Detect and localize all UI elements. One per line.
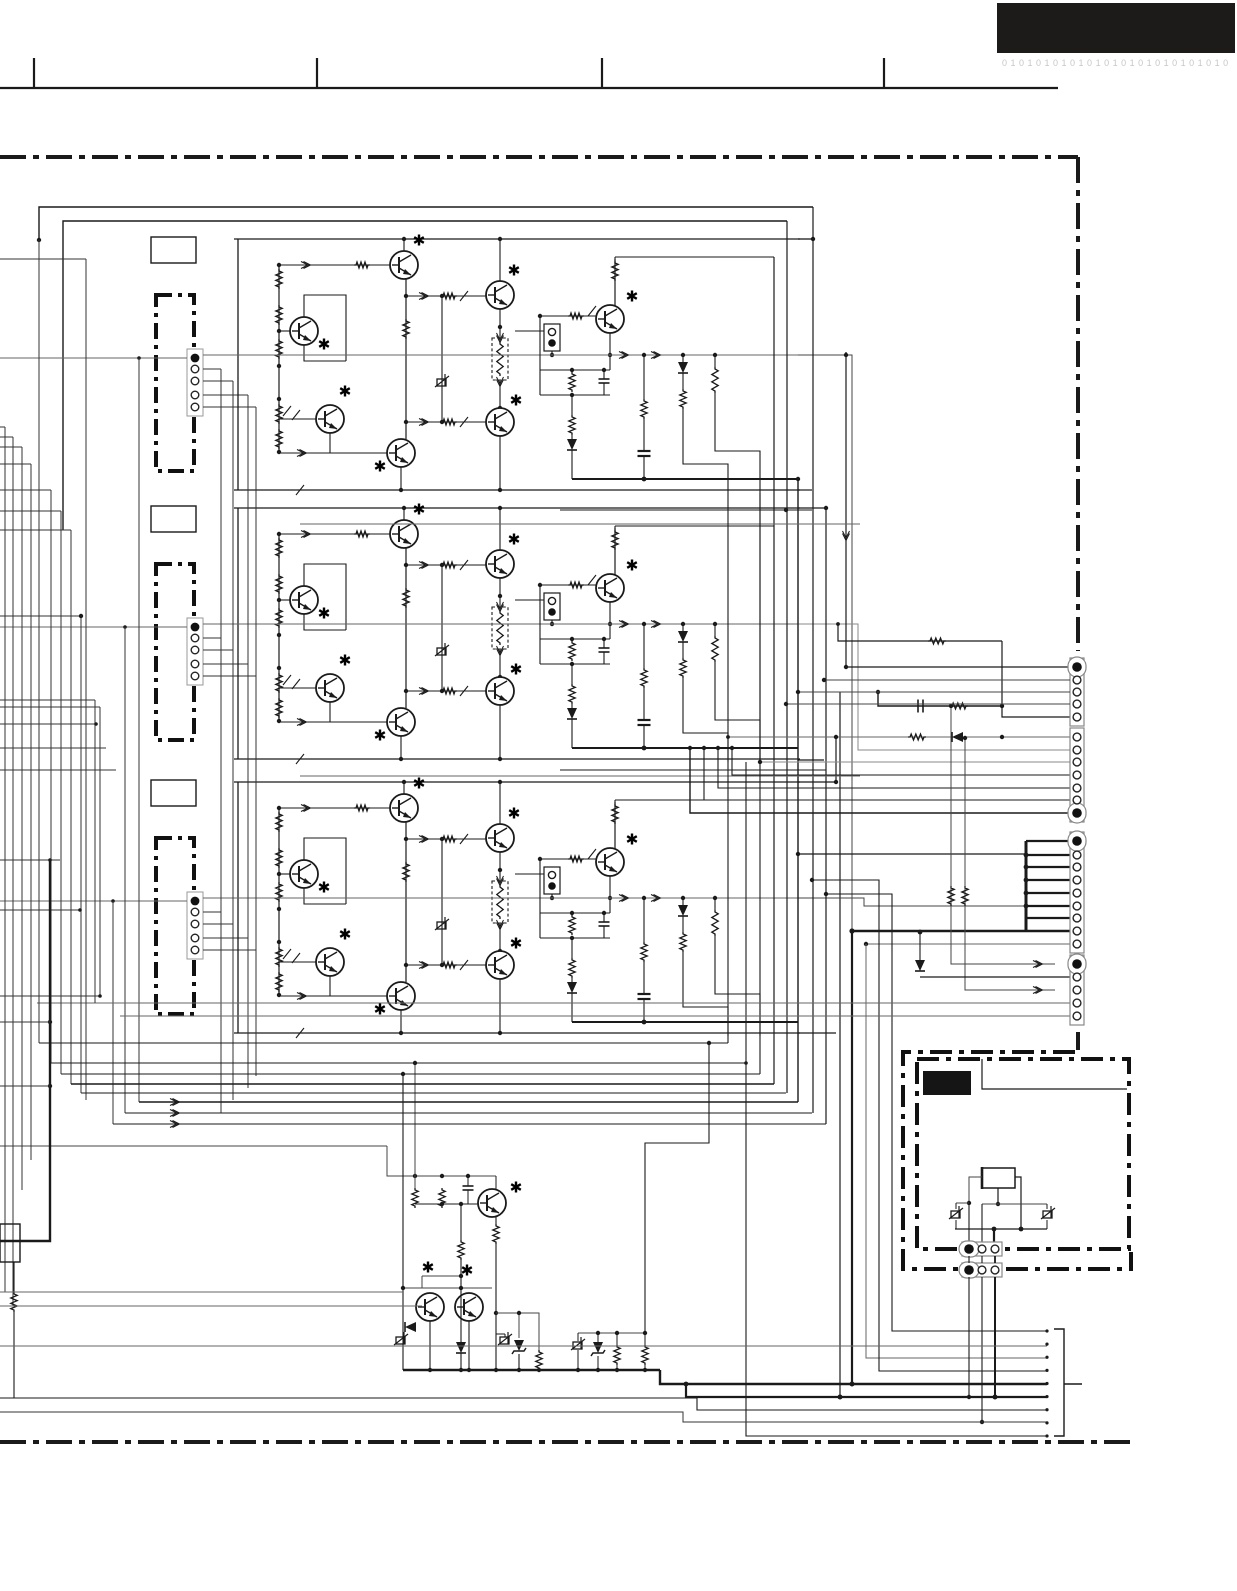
wire drop x233 (232, 381, 234, 1100)
wire zener (496, 1313, 519, 1338)
resistor R42 (908, 734, 926, 740)
wire (519, 1313, 539, 1350)
wires to CN-E (968, 1203, 970, 1245)
resistor R60 (412, 1188, 418, 1208)
connector CN-D (1070, 955, 1084, 1025)
resistor R64 (536, 1350, 542, 1370)
connector CN-A (1070, 658, 1084, 726)
bus wire 3 (797, 479, 799, 1102)
node (849, 928, 854, 933)
wire z-step 2 (826, 894, 1047, 1331)
left bus wire x=81 (80, 616, 82, 1093)
wire drop x248 (247, 395, 249, 1088)
capacitor C61 (gnd) (396, 1337, 405, 1344)
resistor R43 (948, 886, 954, 906)
wire bottom long 1 (0, 1398, 1047, 1410)
ruler tick x=602 (601, 58, 603, 88)
wire z-step 1 (812, 880, 1047, 1371)
bus wire 7 (846, 352, 1070, 667)
resistor R62 (458, 1240, 464, 1260)
sub-board outer outline (dash-dot) (903, 1052, 1131, 1269)
left bus wire x=86 (85, 259, 87, 1100)
wire long 1346 (0, 1345, 1047, 1347)
wire relay mid (997, 1188, 999, 1204)
capacitor C50 (gnd) (951, 1211, 960, 1218)
resistor R44 (962, 886, 968, 906)
wire drop x403 (402, 1074, 404, 1288)
sub-board inner outline (dash-dot) (917, 1059, 1129, 1249)
board outline top (dash-dot) (0, 155, 1078, 159)
thick return wire (0, 860, 50, 1241)
wire long into CN-D (37, 1002, 1070, 1004)
harness wire y=1102 (139, 1101, 798, 1103)
harness arrows (170, 1099, 180, 1106)
left bus wire x=22 (21, 447, 23, 1190)
wire end y=1370 (1045, 1369, 1048, 1372)
left horizontals (0, 258, 86, 260)
left bus wire x=51 (50, 490, 52, 1063)
wire end y=1396 (1045, 1395, 1048, 1398)
relay outline channel 3 (dash-dot) (156, 838, 194, 1014)
wires CN3 pins (0, 900, 187, 902)
assembly outline wire inner (63, 221, 787, 530)
wire end y=1383 (1045, 1382, 1048, 1385)
wire bottom rail (955, 1228, 1047, 1230)
wire rail ch2 to bus (798, 624, 1070, 750)
wire into CN-A pins (824, 679, 1070, 681)
wire relay left (969, 1177, 982, 1203)
wire gap1 b (300, 523, 860, 525)
top ruler line (0, 87, 1058, 89)
zener ZD61 (593, 1342, 603, 1353)
wire drop x709 (645, 1043, 709, 1333)
wire pin9 (866, 943, 1070, 945)
wire end y=1409 (1045, 1408, 1048, 1411)
protection ground bus (403, 1369, 660, 1371)
wire relay right (1015, 1177, 1021, 1229)
left bus wire x=61 (60, 511, 62, 1074)
wire (429, 1321, 431, 1370)
wire rail mid (982, 1203, 1047, 1205)
transistor Q60 (478, 1189, 506, 1217)
connector CN-F (3 pin) (962, 1263, 1002, 1277)
connector CN2 (5 pin) (187, 618, 203, 685)
comb stub y=855 (1026, 854, 1070, 856)
left bus wire x=100 (99, 707, 101, 996)
comb stub y=906 (1026, 905, 1070, 907)
bus wire 1 (773, 257, 775, 1084)
title block (black) (997, 3, 1235, 53)
harness bracket (1054, 1329, 1064, 1436)
resistor R61 (439, 1188, 445, 1208)
left bus wire x=71 (70, 530, 72, 1084)
harness wire y=1063 (51, 1062, 746, 1064)
capacitor C60 (463, 1185, 474, 1187)
resistor R63 (493, 1224, 499, 1244)
connector CN-B (1070, 728, 1084, 822)
bus wire 2 (786, 221, 788, 1093)
relay outline channel 2 (dash-dot) (156, 564, 194, 740)
harness wire y=1093 (81, 1092, 786, 1094)
diode D61 (456, 1342, 466, 1353)
bus drop x840 (839, 692, 841, 1397)
wire column x760 (759, 493, 761, 1074)
wire rail drop ch3 (112, 901, 114, 1124)
wire base rail (415, 1203, 478, 1205)
ruler tick x=317 (316, 58, 318, 88)
wire end y=1357 (1045, 1356, 1048, 1359)
bus step 2 (686, 1384, 1047, 1397)
bus wire 4 (812, 207, 814, 1113)
wires CN-E to CN-F (968, 1256, 970, 1263)
left bottom box (0, 1224, 20, 1262)
harness wire y=1043 (39, 1042, 728, 1044)
wire (460, 1204, 462, 1240)
connector CN-E (3 pin) (962, 1242, 1002, 1256)
wire drop x415 (414, 1063, 416, 1188)
left bus wire x=5 (4, 427, 6, 1292)
wires CN1 pins (0, 357, 187, 359)
wire gap1 a (560, 509, 812, 511)
resistor R40 (838, 624, 1002, 641)
resistor R70 (11, 1292, 17, 1312)
connector CN3 (5 pin) (187, 892, 203, 959)
wires CN2 pins (0, 626, 187, 628)
wire rail854 (798, 853, 1026, 855)
left bus wire x=13 (12, 437, 14, 1306)
wire left grey 1 (0, 1291, 403, 1293)
left bus wire x=95 (94, 700, 96, 1003)
channel bottom borders extend (798, 489, 812, 491)
channel top borders extend (798, 238, 813, 240)
wire feed left (0, 1145, 387, 1147)
label box channel 1 (151, 237, 196, 263)
wire top rail (387, 1146, 496, 1176)
amplifier channel 2 (203, 504, 800, 765)
comb stub y=867 (1026, 866, 1070, 868)
resistor R41 (950, 703, 968, 709)
capacitor C63 (gnd) (573, 1342, 582, 1349)
relay K1 box (982, 1168, 1015, 1188)
diode D60 (405, 1322, 416, 1332)
wires into CN-B (759, 493, 761, 762)
wire cap row (878, 692, 1002, 706)
transistor Q61 (416, 1293, 444, 1321)
resistor R66 (642, 1345, 648, 1365)
wire Q60 emitter (495, 1217, 497, 1224)
assembly outline wire outer (39, 207, 813, 240)
wire (951, 706, 1055, 964)
thick drop x852 (851, 931, 853, 1384)
relay outline channel 1 (dash-dot) (156, 295, 194, 471)
bus wire 6 (835, 737, 837, 782)
capacitor C62 (gnd) (500, 1337, 509, 1344)
wire (965, 738, 1055, 990)
comb stub y=841 (1026, 840, 1070, 842)
harness wire y=1084 (71, 1083, 774, 1085)
wire pair bases (403, 1287, 492, 1289)
harness wire y=1113 (125, 1112, 812, 1114)
label box channel 2 (151, 506, 196, 532)
label box channel 3 (151, 780, 196, 806)
diode D40 (952, 732, 963, 742)
harness wire y=1124 (113, 1123, 826, 1125)
sub-board label (black) (923, 1071, 971, 1095)
amplifier channel 1 (203, 235, 800, 496)
power comb bus (1025, 841, 1028, 931)
comb stub y=918 (1026, 917, 1070, 919)
connector CN1 (5 pin) (187, 349, 203, 416)
wire (495, 1244, 497, 1370)
left bus wire x=31 (30, 464, 32, 1160)
wire drop x256 (255, 407, 257, 1076)
thick rail pin8 (852, 930, 1070, 933)
wire shield (982, 1059, 1127, 1089)
resistor R65 (614, 1345, 620, 1365)
wire rail drop ch1 (138, 358, 140, 1102)
wire bottom long 2 (0, 1412, 1047, 1422)
wire left grey 2 (0, 1305, 422, 1307)
comb stub y=893 (1026, 892, 1070, 894)
wire rail ch3 to bus (798, 898, 1070, 906)
amplifier channel 3 (203, 778, 800, 1039)
group right rail (578, 1332, 645, 1334)
wire Q60 collector (495, 1176, 497, 1189)
bus wire 5 (825, 508, 827, 1124)
wire drop x221 (220, 369, 222, 1113)
wires CN-F down (968, 1277, 970, 1397)
wire rail ch1 to bus (798, 355, 852, 931)
wire rail drop ch2 (124, 627, 126, 1113)
wire column x728 (727, 493, 729, 1043)
diode D41 (915, 960, 925, 971)
transistor Q62 (455, 1293, 483, 1321)
board outline right (dash-dot) (1076, 157, 1080, 651)
wire column x746 (746, 762, 1047, 1436)
wire end y=1331 (1045, 1329, 1048, 1332)
bus step 1 (660, 1370, 1047, 1384)
wire end y=1344 (1045, 1343, 1048, 1346)
wire harness drop x866 (866, 944, 1047, 1358)
comb stub y=880 (1026, 879, 1070, 881)
wire stub 1022 (0, 1021, 50, 1023)
zener ZD60 (514, 1340, 524, 1351)
capacitor C51 (gnd) (1043, 1211, 1052, 1218)
svg-text:0 1 0 1 0 1 0 1 0 1 0 1 0 1 0: 0 1 0 1 0 1 0 1 0 1 0 1 0 1 0 1 0 1 0 1 … (1002, 58, 1229, 68)
wire D row2 (920, 976, 1070, 978)
wire stub 1086 (0, 1085, 50, 1087)
wire end y=1435 (1045, 1434, 1048, 1437)
connector CN-C (1070, 832, 1084, 953)
junction node (37, 238, 41, 242)
wire gap2 a (560, 769, 826, 771)
capacitor C40 (917, 700, 919, 713)
board outline bottom (dash-dot) (0, 1440, 1134, 1444)
left bus wire x=39 (38, 240, 40, 1043)
harness wire y=1074 (61, 1073, 760, 1075)
wire end y=1422 (1045, 1421, 1048, 1424)
ruler tick x=34 (33, 58, 35, 88)
wire gap2 b (300, 775, 860, 777)
ruler tick x=884 (883, 58, 885, 88)
